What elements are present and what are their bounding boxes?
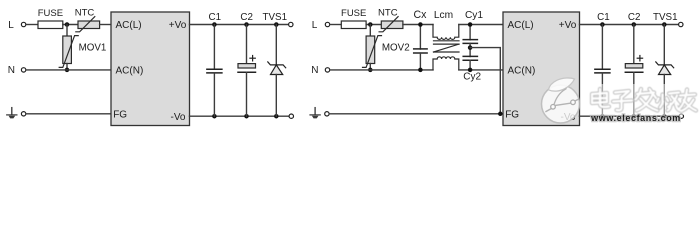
wire choke to AC(L)2 <box>459 24 503 26</box>
wire NTC2 to choke <box>403 24 433 26</box>
svg-text:FUSE: FUSE <box>341 8 366 19</box>
wire +Vo rail 2 <box>580 24 679 26</box>
wire N2 rail to choke <box>330 69 433 71</box>
node B junction dot (MOV1/N) <box>65 68 70 73</box>
capacitor Cy2 <box>463 56 477 70</box>
terminal +Vo right circuit <box>679 22 683 26</box>
svg-text:+Vo: +Vo <box>559 20 577 31</box>
capacitor C2b (electrolytic) <box>625 25 643 117</box>
wire -Vo rail 2 <box>580 115 680 117</box>
wire MOV1 bottom <box>66 64 68 70</box>
watermark white wash under brand text <box>586 84 699 115</box>
capacitor C1b <box>595 25 610 117</box>
wire choke to AC(N)2 <box>459 69 503 71</box>
capacitor C1 <box>207 25 222 117</box>
terminal L <box>21 22 25 26</box>
ground earth symbol left <box>7 108 17 119</box>
wire MOV1 top <box>66 25 68 37</box>
watermark logo node 1 <box>551 105 556 110</box>
svg-text:NTC: NTC <box>75 8 95 19</box>
terminal N2 <box>325 68 329 72</box>
node junction dot FG drop <box>498 112 503 117</box>
svg-text:Cy1: Cy1 <box>465 10 483 21</box>
node junction dot TVS1b bottom <box>662 114 667 119</box>
svg-text:N: N <box>311 65 318 76</box>
node junction dot Cy2 bottom <box>468 68 473 73</box>
fuse FUSE <box>38 21 63 29</box>
svg-text:FG: FG <box>113 109 127 120</box>
capacitor Cy1 <box>463 25 477 57</box>
node junction dot C2b bottom <box>632 114 637 119</box>
node D junction dot (MOV2/N) <box>368 68 373 73</box>
wire earth to FG <box>26 113 111 115</box>
svg-text:C2: C2 <box>240 12 253 23</box>
wire Cy mid to FG drop <box>470 48 500 114</box>
inductor Lcm core <box>434 41 460 52</box>
wire N to AC(N) <box>26 69 111 71</box>
ground earth symbol right <box>310 108 320 119</box>
svg-text:C2: C2 <box>628 12 641 23</box>
inductor Lcm bottom winding <box>433 57 459 70</box>
watermark logo leaf <box>548 78 574 91</box>
node junction dot C2 bottom <box>244 114 249 119</box>
watermark logo node 2 <box>571 100 576 105</box>
terminal earth right <box>325 112 329 116</box>
svg-text:+Vo: +Vo <box>169 20 187 31</box>
node junction dot Cy mid <box>468 45 473 50</box>
node junction dot TVS1 bottom <box>274 114 279 119</box>
node A junction dot (fuse/MOV1) <box>65 22 70 27</box>
wire L to fuse <box>26 24 39 26</box>
watermark chinese brand text (stylized strokes) <box>592 89 696 111</box>
wire -Vo rail <box>190 115 290 117</box>
node junction dot Cy1 top <box>468 22 473 27</box>
diode TVS1 (zener) <box>268 25 286 117</box>
fuse FUSE2 <box>341 21 366 29</box>
node junction dot C1 top <box>212 22 217 27</box>
svg-text:FG: FG <box>505 109 519 120</box>
capacitor C2 (electrolytic) <box>238 25 256 117</box>
node junction dot C1b top <box>600 22 605 27</box>
watermark logo circle <box>542 85 580 123</box>
wire NTC to AC(L) <box>100 24 111 26</box>
svg-text:C1: C1 <box>209 12 222 23</box>
wire L2 to fuse2 <box>330 24 342 26</box>
terminal -Vo right circuit <box>679 114 683 118</box>
node junction dot TVS1 top <box>274 22 279 27</box>
thermistor NTC <box>76 17 100 32</box>
svg-text:AC(N): AC(N) <box>508 66 536 77</box>
terminal earth left <box>21 112 25 116</box>
wire MOV2 top <box>369 25 371 37</box>
terminal L2 <box>325 22 329 26</box>
svg-text:L: L <box>8 20 14 31</box>
svg-text:TVS1: TVS1 <box>263 12 288 23</box>
svg-text:www.elecfans.com: www.elecfans.com <box>590 113 681 123</box>
node junction dot C1b bottom <box>600 114 605 119</box>
node junction dot Cx top <box>418 22 423 27</box>
svg-text:-Vo: -Vo <box>170 112 185 123</box>
svg-text:TVS1: TVS1 <box>653 12 678 23</box>
terminal +Vo left circuit <box>289 22 293 26</box>
svg-text:MOV2: MOV2 <box>382 43 410 54</box>
node junction dot Cx bottom <box>418 68 423 73</box>
node junction dot C1 bottom <box>212 114 217 119</box>
svg-text:AC(L): AC(L) <box>116 20 142 31</box>
node junction dot C2 top <box>244 22 249 27</box>
thermistor NTC2 <box>379 17 403 32</box>
svg-text:Lcm: Lcm <box>434 10 453 21</box>
watermark logo link line <box>546 109 551 112</box>
wire earth2 to FG2 <box>330 113 503 115</box>
converter module U1 (left block) <box>111 12 190 126</box>
terminal -Vo left circuit <box>289 114 293 118</box>
wire +Vo rail <box>190 24 289 26</box>
svg-text:FUSE: FUSE <box>38 8 63 19</box>
inductor Lcm common-mode choke top winding <box>433 25 459 40</box>
node junction dot C2b top <box>632 22 637 27</box>
svg-text:NTC: NTC <box>378 8 398 19</box>
svg-text:Cx: Cx <box>414 9 428 21</box>
terminal N <box>21 68 25 72</box>
watermark logo curve to leaf <box>554 89 567 107</box>
svg-text:MOV1: MOV1 <box>79 43 107 54</box>
varistor MOV1 <box>59 36 78 68</box>
svg-text:C1: C1 <box>597 12 610 23</box>
node C junction dot (fuse2/MOV2) <box>368 22 373 27</box>
varistor MOV2 <box>363 36 382 68</box>
capacitor Cx <box>414 25 427 70</box>
svg-text:AC(L): AC(L) <box>508 20 534 31</box>
converter module U2 (right block) <box>503 12 580 126</box>
node junction dot TVS1b top <box>662 22 667 27</box>
wire fuse2 to NTC2 <box>366 24 381 26</box>
svg-text:AC(N): AC(N) <box>116 66 144 77</box>
wire MOV2 bottom <box>369 64 371 70</box>
svg-text:N: N <box>8 65 15 76</box>
diode TVS1b (zener) <box>656 25 674 117</box>
svg-text:L: L <box>312 20 318 31</box>
wire fuse to NTC <box>63 24 78 26</box>
svg-text:Cy2: Cy2 <box>463 72 481 83</box>
